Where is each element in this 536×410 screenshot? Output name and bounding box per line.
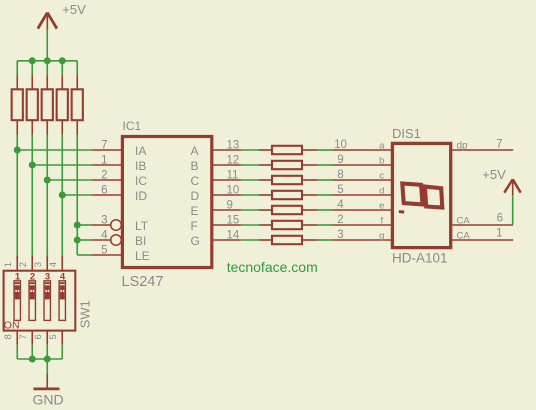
svg-text:6: 6 (33, 334, 44, 339)
pin 7 (dp) (452, 149, 513, 151)
svg-text:4: 4 (48, 262, 59, 267)
pin 8 (switch bottom) (16, 331, 18, 345)
svg-text:5: 5 (101, 244, 107, 256)
svg-text:a: a (379, 140, 385, 151)
switch element 3 (44, 281, 50, 321)
wire to BI (77, 239, 92, 241)
wire bus to resistor 3 (46, 61, 48, 76)
svg-text:1: 1 (496, 228, 502, 240)
wire to LE (77, 254, 92, 256)
wire D to resistor (241, 194, 259, 196)
svg-text:+5V: +5V (482, 167, 506, 182)
svg-text:tecnoface.com: tecnoface.com (227, 259, 318, 275)
pin 6 (ID) (92, 194, 122, 196)
svg-text:SW1: SW1 (78, 300, 93, 328)
wire +5V to CA (512, 196, 514, 225)
pin 4 (switch top) (61, 255, 63, 270)
svg-text:7: 7 (101, 139, 107, 151)
wire E to resistor (241, 209, 259, 211)
svg-text:g: g (379, 230, 384, 241)
svg-text:d: d (379, 185, 384, 196)
svg-text:13: 13 (227, 139, 240, 151)
switch SW1 body (4, 271, 76, 331)
resistor R8 (segment c) (259, 176, 318, 184)
wire to LT (77, 224, 92, 226)
switch element 4 (59, 281, 65, 321)
svg-text:ON: ON (4, 320, 20, 332)
resistor R5 (pull-up) (72, 76, 83, 135)
resistor R4 (pull-up) (57, 76, 68, 135)
svg-text:3: 3 (101, 214, 107, 226)
seven-segment glyph right loop (425, 187, 442, 208)
svg-text:D: D (191, 189, 200, 203)
supply +5V arrow symbol (right) (504, 179, 520, 195)
svg-text:e: e (379, 200, 384, 211)
resistor R3 (pull-up) (42, 76, 53, 135)
svg-text:7: 7 (18, 334, 29, 339)
op IC1 LS247 body (122, 137, 211, 268)
pin 9 (display b) (333, 164, 393, 166)
pin 13 (A output) (212, 149, 241, 151)
svg-text:LE: LE (135, 249, 150, 263)
wire B to resistor (241, 164, 259, 166)
resistor R7 (segment b) (259, 161, 318, 169)
resistor R12 (segment g) (259, 236, 318, 244)
wire bottom bus (17, 358, 62, 360)
svg-text:10: 10 (227, 184, 240, 196)
wire switch pin 5 down (61, 345, 63, 359)
pin 5 (display d) (333, 194, 393, 196)
svg-text:3: 3 (337, 229, 343, 241)
wire resistor to display b (318, 164, 333, 166)
wire net to switch pin 4 (61, 255, 63, 258)
pin 4 (display e) (333, 209, 393, 211)
wire net column 3 (46, 135, 48, 256)
pin 3 (display g) (333, 239, 393, 241)
wire net column 1 (16, 135, 18, 256)
wire to ID (62, 194, 92, 196)
decimal point (399, 210, 405, 214)
wire switch pin 6 down (46, 345, 48, 359)
svg-text:9: 9 (227, 199, 233, 211)
junction dot net5/BI (74, 237, 81, 244)
svg-text:7: 7 (496, 138, 502, 150)
junction dot net2/IB (29, 162, 36, 169)
svg-text:14: 14 (227, 229, 240, 241)
svg-text:1: 1 (3, 262, 14, 267)
svg-text:2: 2 (337, 214, 343, 226)
pin 7 (IA) (92, 149, 122, 151)
wire net to switch pin 3 (46, 255, 48, 258)
wire A to resistor (241, 149, 259, 151)
resistor R11 (segment f) (259, 221, 318, 229)
wire switch pin 8 down (16, 345, 18, 359)
svg-text:8: 8 (337, 169, 343, 181)
svg-text:+5V: +5V (62, 2, 86, 17)
junction dot net5/LT (74, 222, 81, 229)
svg-text:4: 4 (337, 199, 344, 211)
wire F to resistor (241, 224, 259, 226)
svg-text:15: 15 (227, 214, 240, 226)
pin 1 (IB) (92, 164, 122, 166)
svg-text:F: F (191, 219, 198, 233)
pin 3 (LT, inverted) (92, 220, 121, 231)
svg-text:B: B (191, 159, 199, 173)
svg-text:5: 5 (48, 334, 59, 339)
svg-text:6: 6 (101, 184, 107, 196)
pin 5 (LE) (92, 254, 122, 256)
junction dot net3/IC (44, 177, 51, 184)
wire to IB (32, 164, 92, 166)
svg-text:1: 1 (101, 154, 107, 166)
pin 6 (switch bottom) (46, 331, 48, 345)
pin 11 (C output) (212, 179, 241, 181)
junction dot net4/ID (59, 192, 66, 199)
pin 12 (B output) (212, 164, 241, 166)
svg-text:dp: dp (457, 140, 469, 151)
wire G to resistor (241, 239, 259, 241)
svg-text:IB: IB (135, 159, 146, 173)
svg-text:b: b (379, 155, 384, 166)
pin 9 (E output) (212, 209, 241, 211)
svg-text:IC1: IC1 (123, 119, 142, 133)
svg-text:DIS1: DIS1 (392, 126, 421, 141)
svg-text:9: 9 (337, 154, 343, 166)
junction dot bottom bus col3 (44, 356, 51, 363)
resistor R1 (pull-up) (12, 76, 23, 135)
svg-text:HD-A101: HD-A101 (392, 251, 448, 266)
ground GND symbol (34, 374, 60, 389)
pin 4 (BI, inverted) (92, 235, 121, 246)
wire resistor to display e (318, 209, 333, 211)
svg-text:f: f (380, 215, 383, 226)
svg-text:CA: CA (457, 216, 471, 227)
seven-segment glyph left loop (402, 184, 422, 205)
wire net to switch pin 1 (16, 255, 18, 258)
wire resistor to display a (318, 149, 333, 151)
svg-text:6: 6 (497, 212, 503, 224)
pin 10 (D output) (212, 194, 241, 196)
pin 8 (display c) (333, 179, 393, 181)
wire net column 5 (76, 135, 78, 256)
wire net column 4 (61, 135, 63, 256)
display DIS1 body (392, 143, 450, 247)
wire net to switch pin 2 (31, 255, 33, 258)
svg-text:E: E (191, 204, 199, 218)
wire resistor to display g (318, 239, 333, 241)
pin 2 (IC) (92, 179, 122, 181)
wire bus to resistor 2 (31, 61, 33, 76)
svg-text:LS247: LS247 (122, 274, 164, 290)
wire bus to resistor 5 (76, 61, 78, 76)
svg-text:11: 11 (227, 169, 239, 181)
wire resistor to display f (318, 224, 333, 226)
pin 2 (switch top) (31, 255, 33, 270)
junction dot bus col3 (44, 57, 51, 64)
wire bus to GND (46, 359, 48, 375)
svg-text:C: C (191, 174, 200, 188)
wire bus to resistor 1 (16, 61, 18, 76)
switch element 2 (29, 281, 35, 321)
svg-text:CA: CA (457, 230, 471, 241)
pin 1 (switch top) (16, 255, 18, 270)
svg-text:3: 3 (33, 262, 44, 267)
svg-text:G: G (191, 234, 200, 248)
pin 15 (F output) (212, 224, 241, 226)
svg-text:12: 12 (227, 154, 240, 166)
resistor R9 (segment d) (259, 191, 318, 199)
supply +5V arrow symbol (38, 13, 57, 30)
wire +5V stem to bus (46, 30, 48, 61)
wire resistor to display d (318, 194, 333, 196)
junction dot bus col4 (59, 57, 66, 64)
pin 2 (display f) (333, 224, 393, 226)
switch element 1 (14, 281, 20, 321)
pin 7 (switch bottom) (31, 331, 33, 345)
svg-text:2: 2 (18, 262, 29, 267)
svg-text:ID: ID (135, 189, 147, 203)
resistor R10 (segment e) (259, 206, 318, 214)
svg-text:LT: LT (135, 219, 149, 233)
pin 3 (switch top) (46, 255, 48, 270)
svg-text:GND: GND (33, 392, 64, 408)
wire resistor to display c (318, 179, 333, 181)
resistor R6 (segment a) (259, 146, 318, 154)
svg-text:A: A (191, 144, 199, 158)
pin 6 (CA) (452, 224, 513, 226)
svg-text:BI: BI (135, 234, 146, 248)
resistor R2 (pull-up) (27, 76, 38, 135)
svg-text:8: 8 (3, 334, 14, 339)
svg-text:2: 2 (101, 169, 107, 181)
svg-text:IA: IA (135, 144, 146, 158)
svg-text:c: c (379, 170, 384, 181)
wire net column 2 (31, 135, 33, 256)
wire top bus (17, 60, 77, 62)
svg-text:IC: IC (135, 174, 147, 188)
pin 1 (CA) (452, 239, 513, 241)
svg-text:4: 4 (101, 229, 108, 241)
svg-text:5: 5 (337, 184, 343, 196)
junction dot bus col2 (29, 57, 36, 64)
junction dot net1/IA (14, 147, 21, 154)
wire switch pin 7 down (31, 345, 33, 359)
wire bus to resistor 4 (61, 61, 63, 76)
pin 10 (display a) (333, 149, 393, 151)
wire to IC (47, 179, 92, 181)
junction dot bottom bus col2 (29, 356, 36, 363)
wire C to resistor (241, 179, 259, 181)
pin 5 (switch bottom) (61, 331, 63, 345)
wire to IA (17, 149, 92, 151)
svg-text:10: 10 (334, 139, 347, 151)
pin 14 (G output) (212, 239, 241, 241)
